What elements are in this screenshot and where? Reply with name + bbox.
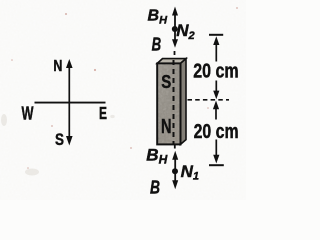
bar magnet front face [157, 63, 180, 144]
svg-text:20 cm: 20 cm [193, 60, 239, 83]
svg-text:S: S [161, 72, 171, 92]
lower dimension arrow up [213, 101, 219, 120]
magnet dashed axis line [173, 60, 175, 144]
scan specks [11, 7, 238, 169]
dashed axis segment above magnet [174, 51, 176, 59]
small dash below magnet [174, 145, 176, 149]
upper dimension top tick [209, 34, 223, 36]
lower dimension arrow down [213, 140, 219, 164]
compass W-E axis wire [35, 102, 106, 104]
svg-text:E: E [99, 103, 107, 123]
upper dimension arrow up [213, 36, 219, 61]
lower dimension bottom tick [209, 164, 224, 166]
faint smudge [1, 114, 115, 176]
bar magnet top face [157, 59, 186, 64]
field arrow below magnet (B_H up / B down through N1) [172, 151, 178, 190]
svg-text:B: B [150, 177, 160, 197]
svg-text:N: N [161, 116, 172, 138]
neutral point N1 dot [172, 168, 178, 174]
magnet front face texture [158, 64, 179, 143]
neutral point N2 dot [172, 26, 178, 32]
bar magnet right side face [181, 59, 187, 145]
svg-text:S: S [55, 130, 64, 149]
svg-text:N: N [53, 58, 62, 75]
dashed midpoint line [188, 99, 230, 101]
svg-text:B: B [152, 35, 162, 55]
field arrow above magnet (B_H up / B down through N2) [172, 7, 178, 48]
paper background noise [0, 0, 246, 200]
svg-text:W: W [22, 104, 34, 124]
compass N-S axis wire [66, 59, 73, 146]
upper dimension arrow down [213, 81, 219, 100]
